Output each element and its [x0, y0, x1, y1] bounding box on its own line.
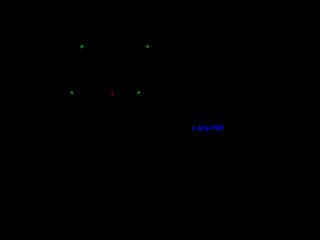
- green LED glow 1 (top-left): [80, 45, 83, 48]
- green LED glow 4 (bottom-right): [137, 91, 140, 94]
- svg-text:x: x: [191, 125, 196, 132]
- green LED glow 2 (top-right): [146, 45, 149, 48]
- blue signature watermark: [191, 125, 225, 132]
- red LED double dot (bottom-center): [112, 91, 114, 95]
- svg-text:Jimy: Jimy: [197, 125, 211, 132]
- green LED glow 3 (bottom-left): [70, 91, 73, 94]
- svg-text:RW: RW: [213, 125, 224, 132]
